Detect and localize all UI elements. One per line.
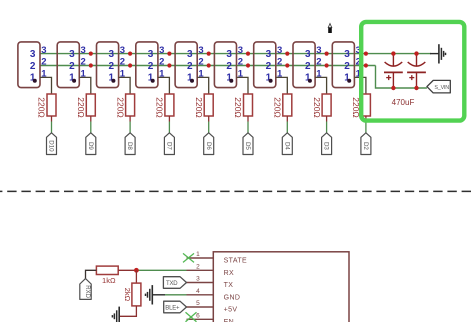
net flag D5 (243, 133, 253, 155)
wire resistor R6 to flag D5 (247, 116, 249, 133)
svg-text:D3: D3 (323, 142, 330, 150)
pin 1 STATE of U1 (187, 251, 248, 265)
wire from J2 pin 1 to resistor (79, 77, 91, 94)
wire pin2 bus (second net, horizontal) (40, 65, 376, 67)
svg-text:3: 3 (316, 45, 321, 56)
svg-text:STATE: STATE (224, 258, 248, 265)
junction on pin3 bus at J7 (285, 52, 289, 56)
svg-text:220Ω: 220Ω (37, 97, 47, 118)
wire from J8 pin 1 to resistor (315, 77, 327, 94)
resistor R3 220&#937; (115, 94, 134, 118)
net flag BLE+ (164, 301, 187, 313)
svg-text:3: 3 (266, 49, 272, 60)
no-connect X on pin 6 EN (186, 312, 197, 322)
junction on pin3 bus at J5 (207, 52, 211, 56)
svg-text:D10: D10 (48, 140, 55, 152)
wire from J5 pin 1 to resistor (197, 77, 209, 94)
resistor R1 220&#937; (37, 94, 56, 118)
svg-text:3: 3 (344, 49, 350, 60)
svg-text:D7: D7 (166, 142, 173, 150)
net flag S_VIN (427, 80, 450, 93)
junction on pin2 bus at J3 (128, 63, 132, 67)
junction on pin3 bus at J4 (167, 52, 171, 56)
net flag D2 (361, 133, 371, 155)
svg-text:3: 3 (159, 45, 164, 56)
connector J4 (3-pin) (136, 42, 165, 88)
svg-text:220Ω: 220Ω (155, 97, 165, 118)
svg-text:2: 2 (316, 57, 321, 68)
dashed sheet separator (0, 190, 474, 192)
svg-text:2: 2 (41, 57, 46, 68)
net flag RXD (80, 279, 91, 300)
resistor R4 220&#937; (155, 94, 174, 118)
svg-text:220Ω: 220Ω (194, 97, 204, 118)
junction capacitor C1 bottom (391, 86, 395, 90)
pin 6 EN of U1 (187, 312, 235, 322)
wire junction to U1 pin 2 RX (136, 269, 186, 271)
net flag TXD (163, 277, 186, 289)
resistor R10 1k&#937; (96, 266, 118, 285)
wire resistor R1 to flag D10 (51, 116, 53, 133)
svg-text:D6: D6 (205, 142, 212, 150)
junction on pin2 bus at J4 (167, 63, 171, 67)
wire resistor R8 to flag D3 (326, 116, 328, 133)
resistor R2 220&#937; (76, 94, 95, 118)
svg-text:2: 2 (198, 57, 203, 68)
wire from J7 pin 1 to resistor (276, 77, 288, 94)
junction on pin3 bus at J6 (246, 52, 250, 56)
wire from J3 pin 1 to resistor (119, 77, 131, 94)
svg-text:D5: D5 (244, 142, 251, 150)
svg-text:220Ω: 220Ω (233, 97, 243, 118)
net flag D6 (204, 133, 214, 155)
junction on pin2 bus at J9 (364, 63, 368, 67)
svg-text:470uF: 470uF (392, 98, 415, 107)
svg-text:2: 2 (120, 57, 125, 68)
svg-text:5: 5 (196, 300, 200, 307)
pin 2 RX of U1 (187, 263, 235, 277)
pin 5 +5V of U1 (187, 300, 238, 314)
wire resistor R9 to flag D2 (365, 116, 367, 133)
svg-text:2: 2 (344, 61, 350, 72)
junction on pin3 bus at J9 (364, 52, 368, 56)
wire pin3 bus (net to D-resistors row, top) (40, 53, 431, 55)
svg-text:2: 2 (187, 61, 193, 72)
junction capacitor C1 top (391, 51, 395, 55)
wire from J6 pin 1 to resistor (237, 77, 249, 94)
svg-text:3: 3 (30, 49, 36, 60)
net flag D4 (282, 133, 292, 155)
svg-text:2: 2 (277, 57, 282, 68)
junction capacitor C2 top (414, 51, 418, 55)
wire stem to ground (top right) (430, 53, 439, 55)
svg-text:D4: D4 (283, 142, 290, 150)
resistor R5 220&#937; (194, 94, 213, 118)
svg-text:220Ω: 220Ω (273, 97, 283, 118)
junction on pin3 bus at J8 (325, 52, 329, 56)
svg-text:D8: D8 (126, 142, 133, 150)
pin 4 GND of U1 (187, 288, 241, 302)
junction capacitor C2 bottom (414, 86, 418, 90)
svg-text:TX: TX (224, 282, 234, 289)
resistor R7 220&#937; (273, 94, 292, 118)
svg-text:3: 3 (108, 49, 114, 60)
junction on pin3 bus at J3 (128, 52, 132, 56)
svg-text:RXD: RXD (84, 285, 90, 298)
svg-text:RX: RX (224, 270, 235, 277)
junction at R10/R11 (134, 268, 139, 273)
svg-text:2: 2 (305, 61, 311, 72)
net flag D8 (125, 133, 135, 155)
svg-text:3: 3 (120, 45, 125, 56)
net flag D7 (164, 133, 174, 155)
connector J5 (3-pin) (175, 42, 204, 88)
connector J3 (3-pin) (97, 42, 126, 88)
svg-text:6: 6 (196, 312, 200, 319)
cursor mark (328, 24, 332, 34)
ground GND (top right) (439, 44, 446, 63)
svg-text:3: 3 (69, 49, 75, 60)
svg-text:2: 2 (148, 61, 154, 72)
wire R11 bottom to ground (119, 306, 136, 316)
wire from J9 pin 1 to resistor (354, 77, 366, 94)
svg-text:2: 2 (108, 61, 114, 72)
wire resistor R2 to flag D9 (90, 116, 92, 133)
svg-text:4: 4 (196, 288, 200, 295)
svg-text:3: 3 (226, 49, 232, 60)
svg-text:220Ω: 220Ω (76, 97, 86, 118)
wire R10 right to junction (118, 269, 136, 271)
svg-text:S_VIN: S_VIN (434, 85, 449, 91)
svg-text:3: 3 (81, 45, 86, 56)
svg-text:220Ω: 220Ω (115, 97, 125, 118)
connector J2 (3-pin) (57, 42, 86, 88)
svg-text:2: 2 (30, 61, 36, 72)
wire from J4 pin 1 to resistor (158, 77, 170, 94)
wire resistor R7 to flag D4 (286, 116, 288, 133)
ground GND (below R11) (112, 307, 119, 322)
junction on pin2 bus at J7 (285, 63, 289, 67)
junction on pin2 bus at J8 (325, 63, 329, 67)
svg-text:D2: D2 (362, 142, 369, 150)
svg-text:D9: D9 (87, 142, 94, 150)
wire ground to U1 pin 4 GND (165, 294, 187, 296)
svg-text:220Ω: 220Ω (312, 97, 322, 118)
wire pin2 net drop to capacitor bottom rail (376, 66, 427, 89)
svg-text:3: 3 (198, 45, 203, 56)
net flag D10 (47, 133, 57, 155)
svg-text:2: 2 (159, 57, 164, 68)
svg-text:+5V: +5V (224, 307, 238, 314)
no-connect X on pin 1 STATE (183, 253, 194, 262)
svg-text:3: 3 (187, 49, 193, 60)
svg-text:TXD: TXD (166, 281, 178, 287)
svg-text:2: 2 (238, 57, 243, 68)
connector J9 (3-pin) (332, 42, 361, 88)
svg-text:2: 2 (69, 61, 75, 72)
svg-text:GND: GND (224, 294, 241, 301)
wire from J1 pin 1 to resistor (40, 77, 52, 94)
connector J7 (3-pin) (254, 42, 283, 88)
svg-text:1kΩ: 1kΩ (102, 276, 116, 285)
resistor R9 220&#937; (351, 94, 370, 118)
svg-text:2kΩ: 2kΩ (123, 288, 132, 302)
junction on pin2 bus at J6 (246, 63, 250, 67)
highlight frame (green selection box) (361, 22, 464, 121)
resistor R11 2k&#937; (123, 270, 141, 306)
wire resistor R4 to flag D7 (168, 116, 170, 133)
svg-text:3: 3 (148, 49, 154, 60)
net flag D3 (322, 133, 332, 155)
net flag D9 (86, 133, 96, 155)
wire resistor R5 to flag D6 (208, 116, 210, 133)
svg-text:2: 2 (196, 263, 200, 270)
connector J8 (3-pin) (293, 42, 322, 88)
capacitor C1 470uF (polarized) (384, 54, 403, 88)
connector J1 (3-pin) (18, 42, 47, 88)
module U1 (BLE module) body (213, 252, 349, 322)
junction on pin2 bus at J2 (89, 63, 93, 67)
svg-text:2: 2 (226, 61, 232, 72)
svg-text:3: 3 (305, 49, 311, 60)
junction on pin3 bus at J2 (89, 52, 93, 56)
svg-text:1: 1 (196, 251, 200, 258)
svg-text:3: 3 (41, 45, 46, 56)
svg-text:2: 2 (266, 61, 272, 72)
connector J6 (3-pin) (214, 42, 243, 88)
svg-text:3: 3 (196, 276, 200, 283)
resistor R6 220&#937; (233, 94, 252, 118)
ground GND (at U1 pin 4) (146, 285, 166, 304)
resistor R8 220&#937; (312, 94, 331, 118)
pin 3 TX of U1 (187, 276, 234, 290)
svg-text:BLE+: BLE+ (165, 306, 180, 312)
capacitor C2 470uF (polarized) (407, 54, 426, 88)
svg-text:3: 3 (277, 45, 282, 56)
svg-text:3: 3 (238, 45, 243, 56)
svg-text:2: 2 (81, 57, 86, 68)
wire R10 left to RXD flag (86, 270, 97, 278)
junction on pin2 bus at J5 (207, 63, 211, 67)
wire resistor R3 to flag D8 (129, 116, 131, 133)
